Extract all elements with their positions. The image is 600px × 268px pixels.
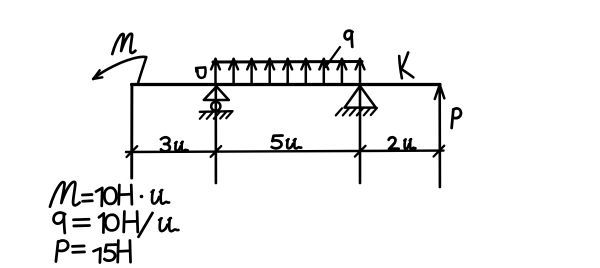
wire support B vertical [359, 85, 362, 183]
dimension line [126, 151, 444, 152]
legend line 3: P = 15 N [56, 240, 131, 262]
distributed load arrows [211, 59, 364, 84]
dimension tick at x=440 [434, 146, 445, 157]
label M (script) top left [112, 34, 135, 54]
label 3m [161, 137, 188, 151]
support B hatching [336, 108, 377, 116]
support A roller: circle [211, 102, 220, 111]
label K [399, 53, 413, 79]
distributed load q top line [213, 60, 362, 64]
wire left end vertical extension [130, 85, 133, 178]
node D label [196, 67, 205, 77]
legend line 1: M = 10 N*m [50, 182, 169, 207]
support A hatching [200, 111, 233, 119]
force P arrow (up at right end) [435, 85, 445, 187]
support A roller: triangle [204, 87, 229, 101]
support B pin: triangle [345, 86, 376, 108]
legend line 2: q = 10 N/m [54, 212, 179, 237]
moment M curved arrow [93, 57, 146, 84]
beam [132, 83, 441, 86]
label 2m [389, 137, 416, 149]
label P [452, 108, 461, 128]
label 5m [272, 135, 302, 148]
wire support A vertical [215, 85, 218, 183]
support A ground line [200, 110, 233, 113]
dimension tick at x=360 [355, 146, 366, 157]
dimension tick at x=132 [127, 146, 138, 157]
dimension tick at x=216 [211, 146, 222, 157]
label q [345, 31, 353, 47]
label q leader line [326, 47, 341, 67]
